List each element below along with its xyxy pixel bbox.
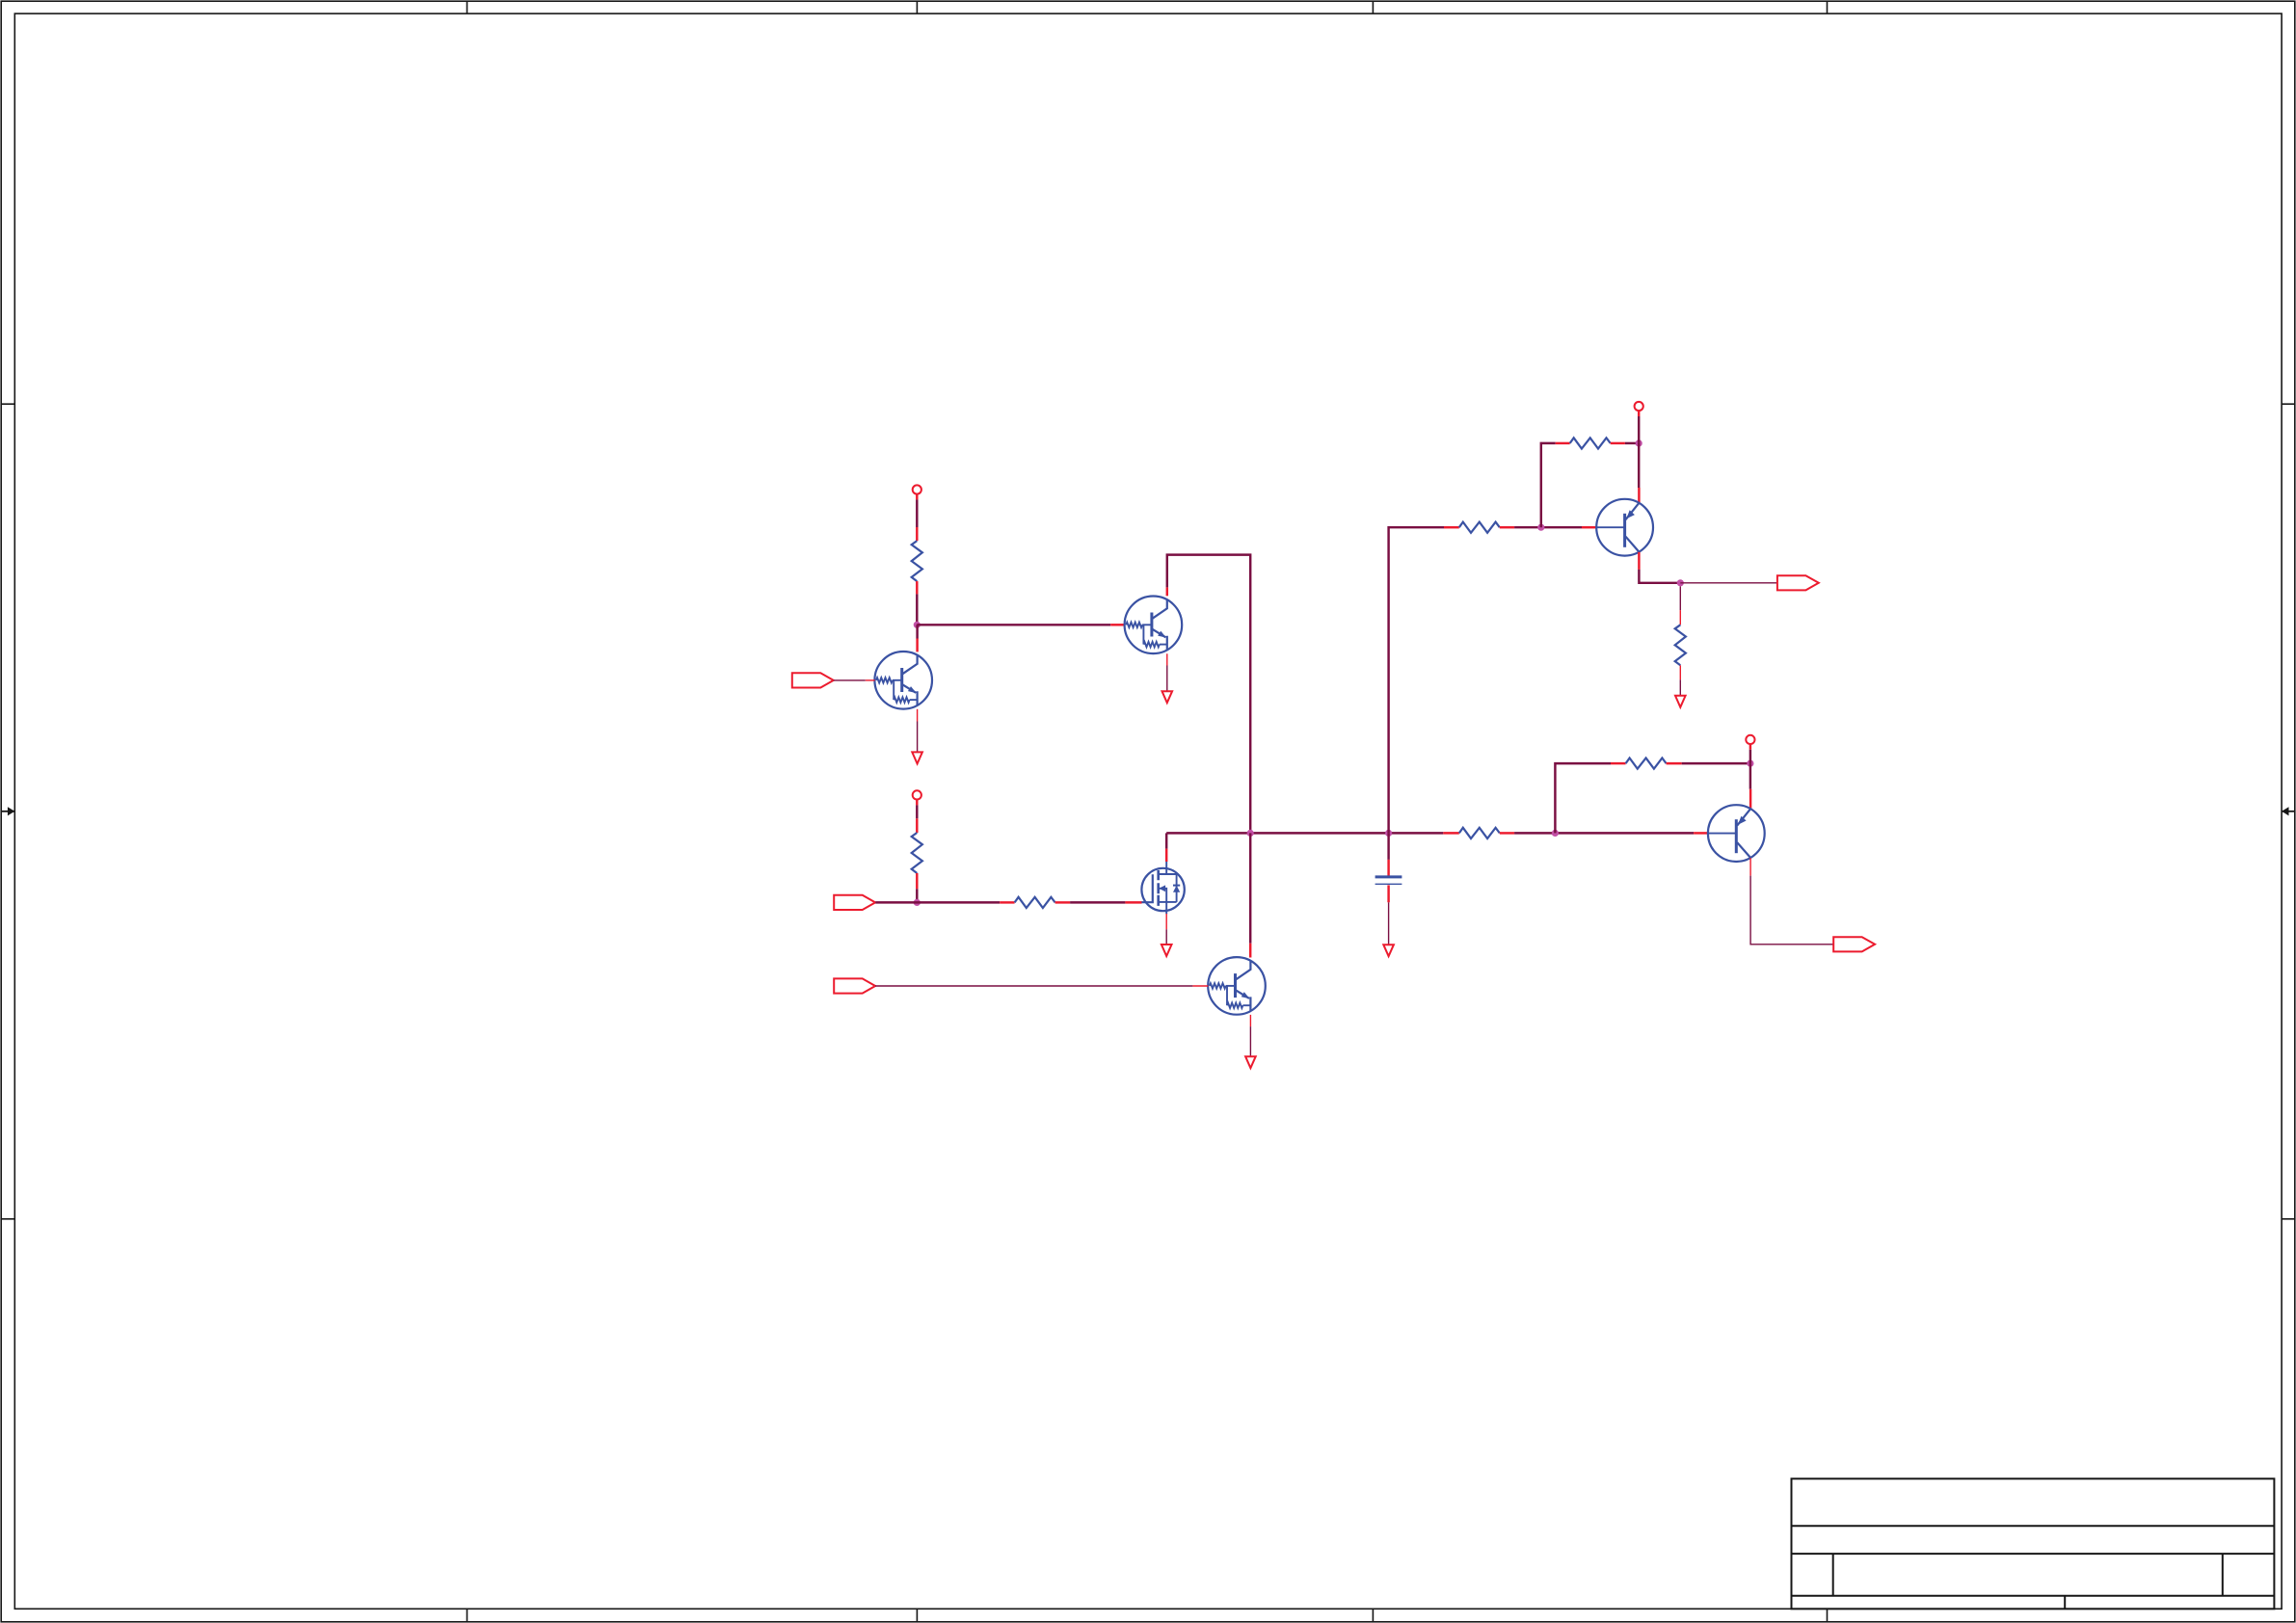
ground GND5 bbox=[1383, 945, 1394, 956]
ground GND1 bbox=[912, 752, 922, 763]
resistor R8 bbox=[1626, 758, 1667, 769]
power VCC3 bbox=[1635, 402, 1643, 411]
wire R6 pin 2 stub bbox=[1611, 442, 1625, 444]
wire Q5 collector stub bbox=[1749, 858, 1751, 875]
junction node I bbox=[1747, 760, 1753, 767]
ground GND3 bbox=[1161, 945, 1172, 956]
power VCC2 bbox=[913, 790, 921, 799]
wire R4 pin 1 stub bbox=[1443, 832, 1459, 834]
wire node A to Q2 base bbox=[917, 624, 1110, 625]
resistor R6 bbox=[1570, 438, 1611, 448]
wire node A to Q1 collector bbox=[916, 625, 918, 638]
wire VCC3 pin stub bbox=[1638, 411, 1640, 416]
wire M1 drain stub bbox=[1165, 849, 1167, 862]
wire R7 pin 1 stub bbox=[1679, 610, 1681, 625]
port P4 output bbox=[1777, 575, 1819, 590]
ground GND2 bbox=[1162, 691, 1173, 703]
wire R2 to node C bbox=[916, 889, 918, 902]
wire Q3 base stub bbox=[1192, 985, 1208, 987]
wire Q3 emitter to ground bbox=[1249, 1026, 1251, 1056]
wire R2 pin 2 stub bbox=[916, 873, 918, 889]
transistor Q3 bbox=[1208, 957, 1266, 1015]
wire node H to P4 bbox=[1680, 582, 1777, 584]
resistor R1 bbox=[912, 541, 922, 581]
wire VCC3 to node F bbox=[1638, 416, 1640, 443]
junction node F bbox=[1636, 439, 1642, 446]
wire R3 to M1 gate bbox=[1070, 901, 1125, 903]
wire node D to C1 bbox=[1387, 833, 1389, 860]
wire Q1 emitter stub bbox=[917, 709, 919, 722]
wire R8 to node I bbox=[1682, 762, 1750, 764]
wire bus to M1 drain bbox=[1165, 833, 1167, 848]
wire R4 to Q5 base bbox=[1514, 832, 1694, 834]
wire Q2 emitter to ground bbox=[1166, 666, 1168, 692]
wire Q2 collector stub bbox=[1166, 587, 1168, 596]
wire R1 pin 2 stub bbox=[916, 581, 918, 594]
wire R6 pin 1 stub bbox=[1556, 442, 1570, 444]
wire R7 pin 2 stub bbox=[1679, 665, 1681, 679]
junction node B bbox=[1247, 830, 1254, 837]
wire VCC4 to node I bbox=[1749, 750, 1751, 763]
wire Q5 collector to P5 bbox=[1750, 876, 1833, 945]
wire VCC2 pin stub bbox=[916, 800, 918, 806]
transistor Q1 bbox=[874, 652, 932, 709]
wire R1 to node A bbox=[916, 594, 918, 625]
wire node D rising to Q4 base row bbox=[1389, 527, 1444, 833]
wire Q4 emitter stub bbox=[1638, 488, 1640, 503]
wire Q3 collector stub bbox=[1249, 944, 1251, 958]
wire Q4 collector stub bbox=[1638, 552, 1640, 570]
wire P3 to Q3 base bbox=[875, 985, 1192, 987]
transistor M1 bbox=[1141, 862, 1184, 915]
wire Q5 emitter stub bbox=[1749, 789, 1751, 810]
wire R5 pin 2 stub bbox=[1500, 526, 1514, 528]
wire Q4 base stub bbox=[1582, 526, 1596, 528]
wire VCC1 pin stub bbox=[916, 494, 918, 500]
wire R8 pin 2 stub bbox=[1667, 762, 1682, 764]
capacitor C1 bbox=[1375, 877, 1402, 884]
wire Q1 base stub bbox=[866, 679, 875, 681]
transistor Q4 bbox=[1596, 499, 1653, 556]
wire VCC4 pin stub bbox=[1749, 744, 1751, 750]
resistor R7 bbox=[1675, 625, 1686, 665]
wire Q4 collector to node H bbox=[1639, 570, 1680, 583]
ground GND6 bbox=[1675, 696, 1686, 707]
wire Q2 emitter stub bbox=[1166, 653, 1168, 665]
wire R3 pin 1 stub bbox=[1000, 901, 1014, 903]
transistor Q2 bbox=[1125, 597, 1183, 654]
power VCC4 bbox=[1746, 735, 1754, 744]
junction node D bbox=[1385, 830, 1392, 837]
wire C1 pin 2 stub bbox=[1387, 885, 1389, 902]
wire node F to Q4 emitter bbox=[1638, 443, 1640, 488]
junction node G bbox=[1552, 830, 1559, 837]
wire R8 pin 1 stub bbox=[1611, 762, 1626, 764]
resistor R5 bbox=[1459, 522, 1500, 533]
wire R3 pin 2 stub bbox=[1055, 901, 1071, 903]
junction node A bbox=[914, 622, 921, 628]
wire C1 pin 1 stub bbox=[1387, 860, 1389, 876]
resistor R3 bbox=[1015, 897, 1055, 908]
wire node G rising to R8 row bbox=[1555, 763, 1611, 833]
wire M1 gate stub bbox=[1125, 901, 1141, 903]
port P5 output bbox=[1833, 937, 1875, 951]
wire R4 pin 2 stub bbox=[1500, 832, 1514, 834]
wire P1 to Q1 base bbox=[834, 679, 866, 681]
wire Q1 emitter to ground bbox=[917, 722, 919, 753]
wire Q1 collector stub bbox=[916, 639, 918, 652]
wire R5 to Q4 base bbox=[1514, 526, 1582, 528]
wire Q3 emitter stub bbox=[1249, 1015, 1251, 1026]
wire VCC1 to R1 bbox=[916, 499, 918, 527]
wire R7 to ground bbox=[1679, 679, 1681, 696]
ground GND4 bbox=[1245, 1056, 1256, 1068]
wire VCC2 to R2 bbox=[916, 805, 918, 818]
wire node E to R6 row bbox=[1541, 443, 1556, 527]
wire C1 to ground bbox=[1388, 902, 1390, 945]
wire node B to Q3 collector bbox=[1249, 833, 1251, 943]
port P1 input bbox=[792, 673, 834, 687]
transistor Q5 bbox=[1708, 805, 1765, 862]
junction node C bbox=[914, 899, 921, 906]
wire R5 pin 1 stub bbox=[1444, 526, 1459, 528]
junction node E bbox=[1537, 524, 1544, 531]
wire R1 pin 1 stub bbox=[916, 527, 918, 541]
junction node H bbox=[1677, 579, 1684, 586]
wire M1 source to ground bbox=[1165, 929, 1167, 945]
wire Q2 collector to bus node B bbox=[1167, 555, 1250, 834]
port P2 input bbox=[834, 895, 875, 910]
wire Q2 base stub bbox=[1110, 624, 1125, 625]
wire Q5 base stub bbox=[1694, 832, 1708, 834]
wire P2 to R3 bbox=[875, 901, 1000, 903]
port P3 input bbox=[834, 978, 875, 993]
resistor R2 bbox=[912, 833, 922, 873]
wire R2 pin 1 stub bbox=[916, 818, 918, 833]
wire node I to Q5 emitter bbox=[1749, 763, 1751, 789]
wire M1 source stub bbox=[1165, 914, 1167, 929]
wire R6 to node F bbox=[1625, 442, 1639, 444]
wire node H to R7 bbox=[1679, 586, 1681, 610]
power VCC1 bbox=[913, 485, 921, 493]
wire bus node B segment bbox=[1166, 832, 1443, 834]
resistor R4 bbox=[1459, 828, 1500, 838]
